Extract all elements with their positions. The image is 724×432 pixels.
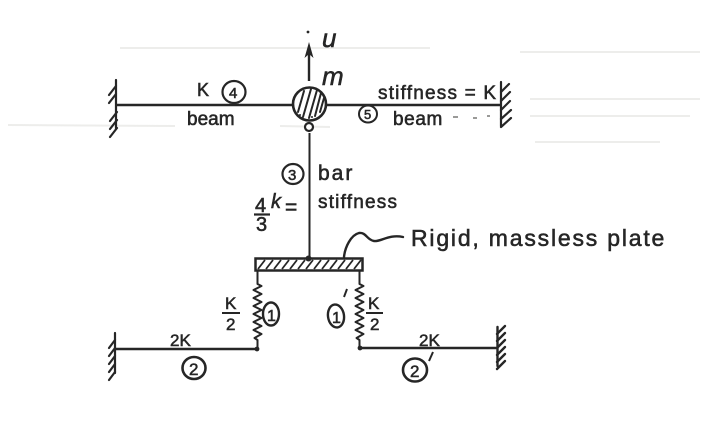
spring 1' (right K/2 spring) — [356, 271, 364, 348]
node circle 4 — [223, 81, 246, 103]
svg-text:5: 5 — [364, 107, 371, 122]
svg-text:beam: beam — [187, 109, 235, 130]
wall support right bottom — [497, 326, 505, 369]
svg-text:3: 3 — [288, 167, 296, 184]
svg-text:K: K — [225, 294, 237, 313]
value label K/2 left — [222, 294, 240, 334]
wall support left bottom — [109, 333, 115, 380]
svg-text:K: K — [368, 294, 380, 313]
svg-text:2: 2 — [226, 315, 235, 334]
node circle 5 — [359, 106, 377, 123]
node circle 2' — [403, 352, 433, 382]
value label K/2 right — [366, 294, 383, 334]
svg-text:2: 2 — [410, 362, 419, 381]
svg-text:2: 2 — [189, 360, 198, 379]
bar 2 (left 2k wire) — [115, 348, 258, 351]
node circle 1 — [263, 303, 279, 326]
mass m (hatched circle) — [293, 88, 326, 121]
svg-text:u: u — [322, 23, 336, 53]
beam 5 (right beam wire) — [326, 104, 501, 107]
stray pen specks (decorative) — [453, 115, 490, 119]
svg-text:3: 3 — [256, 214, 267, 236]
svg-text:1: 1 — [332, 310, 341, 327]
svg-text:4: 4 — [229, 85, 237, 102]
svg-text:2K: 2K — [419, 331, 440, 350]
svg-text:=: = — [285, 196, 297, 219]
rigid massless plate — [256, 256, 363, 271]
svg-text:1: 1 — [267, 308, 276, 325]
node circle 3 — [283, 164, 304, 184]
svg-text:k: k — [271, 191, 282, 213]
svg-text:2K: 2K — [170, 331, 191, 350]
svg-text:Rigid, massless plate: Rigid, massless plate — [411, 225, 666, 251]
photocopy streaks (decorative) — [8, 48, 700, 142]
value label 4/3 k = — [254, 191, 297, 236]
beam 4 (left beam wire) — [116, 104, 294, 107]
svg-text:bar: bar — [318, 162, 354, 185]
svg-text:K: K — [197, 80, 209, 100]
bar 2' (right 2k wire) — [359, 347, 497, 350]
svg-text:stiffness: stiffness — [318, 192, 398, 213]
wall support left top — [109, 80, 117, 137]
svg-text:stiffness = K: stiffness = K — [378, 83, 497, 104]
svg-text:beam: beam — [393, 109, 443, 130]
arrow u (displacement) — [305, 31, 314, 81]
wall support right top — [501, 82, 511, 127]
svg-text:2: 2 — [370, 315, 379, 334]
node circle 2 — [183, 357, 206, 379]
leader squiggle to plate — [344, 233, 403, 257]
svg-text:m: m — [322, 61, 344, 91]
bar 3 (vertical wire) — [309, 133, 311, 258]
hinge pin below mass — [305, 123, 313, 131]
spring 1 (left K/2 spring) — [254, 271, 262, 348]
node circle 1' — [326, 289, 347, 329]
